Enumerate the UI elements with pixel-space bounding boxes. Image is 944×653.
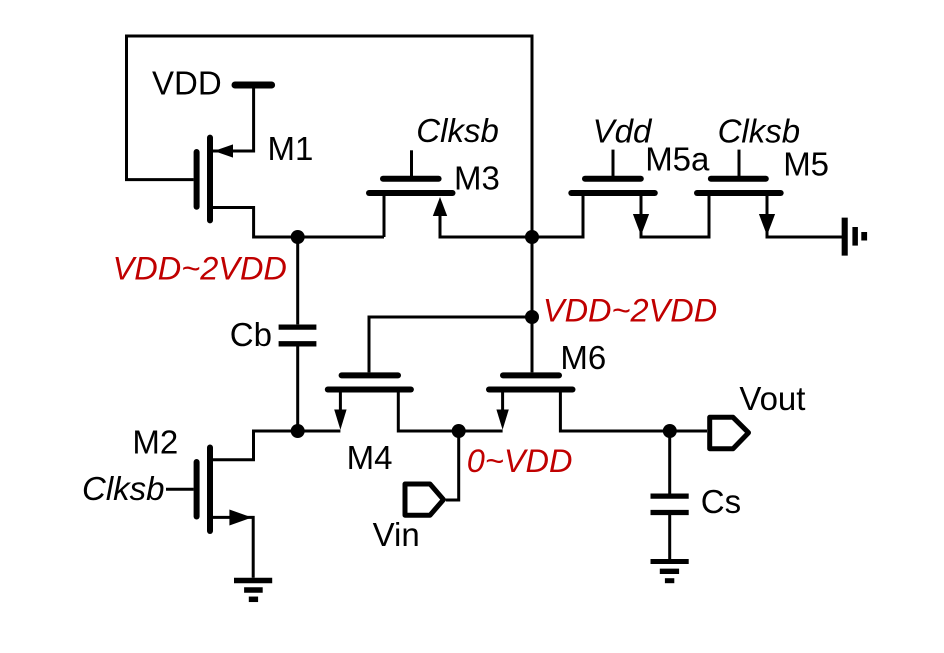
svg-text:M6: M6 xyxy=(560,339,606,376)
svg-text:M4: M4 xyxy=(347,439,393,476)
svg-text:Clksb: Clksb xyxy=(718,112,801,149)
svg-text:Vin: Vin xyxy=(373,516,420,553)
svg-text:Vout: Vout xyxy=(739,380,805,417)
svg-text:M5: M5 xyxy=(783,145,829,182)
svg-text:0~VDD: 0~VDD xyxy=(467,443,573,479)
svg-text:VDD: VDD xyxy=(152,64,222,101)
svg-text:M1: M1 xyxy=(268,130,314,167)
svg-text:Clksb: Clksb xyxy=(416,112,499,149)
svg-text:M2: M2 xyxy=(132,424,178,461)
svg-text:M5a: M5a xyxy=(645,141,710,178)
svg-text:Cs: Cs xyxy=(701,483,741,520)
svg-text:VDD~2VDD: VDD~2VDD xyxy=(543,293,717,329)
svg-text:VDD~2VDD: VDD~2VDD xyxy=(113,251,287,287)
svg-text:Cb: Cb xyxy=(230,316,272,353)
svg-text:M3: M3 xyxy=(454,160,500,197)
svg-text:Clksb: Clksb xyxy=(82,470,165,507)
svg-text:Vdd: Vdd xyxy=(593,112,653,149)
